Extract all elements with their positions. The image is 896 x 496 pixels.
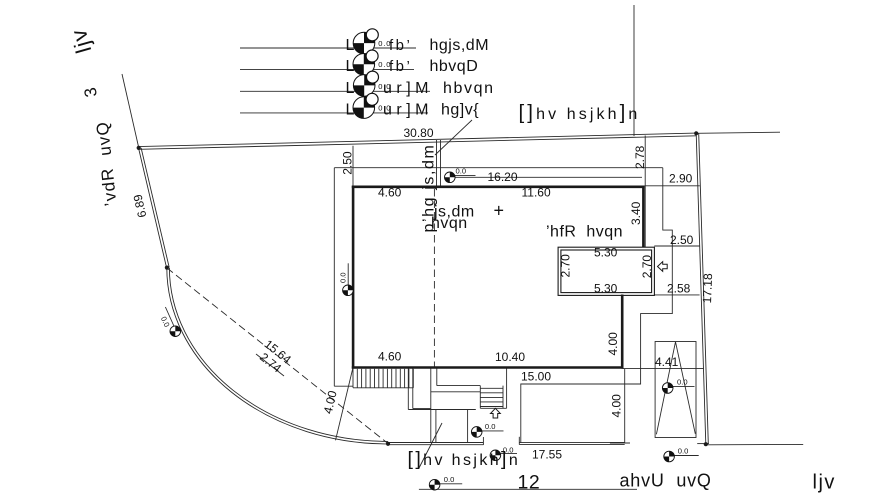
leader bm text row: [501, 453, 518, 455]
room 5.30 x 2.70 inner: [561, 250, 652, 293]
gate leaf triangle: [656, 342, 675, 435]
svg-text:L: L: [346, 58, 355, 75]
porch horizontal ledge: [431, 391, 481, 393]
wall extension above building left: [352, 146, 354, 186]
svg-text:11.60: 11.60: [522, 186, 551, 200]
svg-text:hbvqD: hbvqD: [430, 58, 479, 75]
plot right boundary (double line): [696, 133, 706, 444]
fraction bar 15.64/2.74: [256, 354, 284, 376]
svg-text:0.0: 0.0: [444, 475, 455, 484]
dim line under 12: [419, 488, 637, 490]
svg-text:0.0: 0.0: [485, 422, 496, 431]
svg-text:L: L: [346, 102, 355, 119]
survey line vertical top: [633, 5, 635, 136]
svg-text:2.70: 2.70: [640, 255, 654, 279]
level symbol row1: [353, 29, 378, 54]
svg-text:2.70: 2.70: [559, 254, 573, 278]
svg-text:12: 12: [518, 472, 541, 494]
dim line 2.90: [645, 185, 700, 187]
room door arrow: [658, 262, 668, 272]
boundary extension line top-left: [122, 74, 139, 148]
svg-text:17.18: 17.18: [700, 273, 715, 304]
svg-text:2.50: 2.50: [670, 233, 694, 247]
compound wall bottom-left (double): [388, 442, 483, 444]
bm text row: [490, 450, 501, 461]
leader line row 3: [240, 90, 430, 92]
svg-text:0.0: 0.0: [677, 378, 688, 387]
svg-text:L: L: [346, 80, 355, 97]
dim line 2.50 right: [654, 245, 699, 247]
stairs hatched strip: [353, 369, 413, 388]
plot curved boundary (double arc): [167, 268, 388, 444]
leader bm left wall: [347, 263, 349, 285]
leader line row 4: [240, 112, 428, 114]
svg-text:4.41: 4.41: [655, 355, 679, 369]
yard line to boundary: [623, 368, 704, 370]
porch bottom line: [408, 409, 476, 411]
svg-text:16.20: 16.20: [488, 170, 518, 184]
svg-text:4.60: 4.60: [378, 186, 402, 200]
porch top inner horizontal: [437, 385, 481, 387]
svg-text:+: +: [494, 201, 505, 221]
bm bottom right: [664, 451, 675, 462]
leader to top boundary: [435, 120, 472, 155]
main building walls (thick): [352, 186, 645, 369]
svg-text:15.00: 15.00: [521, 369, 551, 383]
porch vertical wall a: [430, 369, 432, 444]
porch top inner vertical: [436, 369, 438, 386]
fence cap: [610, 442, 630, 444]
level symbol row3: [353, 71, 378, 96]
leader to bottom label: [419, 423, 442, 468]
survey level symbols chain (4 big): [353, 29, 379, 119]
building right wall lower 4.00: [621, 295, 624, 369]
bm porch: [471, 427, 482, 438]
dim line 2.58 right: [654, 294, 699, 296]
room 5.30 x 2.70 outer: [558, 247, 654, 295]
entry steps bottom: [480, 407, 506, 409]
svg-text:3.40: 3.40: [629, 201, 643, 225]
entry steps arrow: [491, 408, 501, 418]
svg-text:30.80: 30.80: [404, 126, 434, 140]
wall extension above building right: [644, 136, 646, 248]
plot top boundary (double line): [139, 133, 697, 147]
leader bm porch: [482, 430, 504, 432]
svg-text:ur]M: ur]M: [383, 102, 433, 119]
gate opening tick left: [482, 437, 484, 445]
fence 4.00 vertical: [624, 369, 626, 443]
leader bm bottom right: [673, 455, 699, 457]
svg-text:ljv: ljv: [813, 472, 836, 494]
leader bm 16.20: [455, 174, 476, 176]
porch lower square right: [467, 410, 469, 444]
svg-text:0.0: 0.0: [456, 167, 467, 176]
svg-text:hbvqn: hbvqn: [443, 80, 495, 97]
setback line right path: [521, 168, 673, 443]
leader line row 2: [240, 68, 414, 70]
building top wall: [352, 186, 645, 189]
svg-text:[]hv hsjkh]n: []hv hsjkh]n: [408, 448, 521, 470]
svg-text:5.30: 5.30: [594, 245, 618, 259]
svg-text:4.00: 4.00: [609, 394, 623, 418]
svg-text:fb’: fb’: [389, 58, 412, 75]
leader line row 1: [240, 47, 416, 49]
svg-text:hgjs,dM: hgjs,dM: [430, 37, 490, 54]
dashed chord 15.64: [167, 268, 388, 444]
right boundary bottom tick: [697, 443, 709, 445]
building left wall: [352, 186, 355, 369]
svg-text:0.0: 0.0: [339, 272, 348, 283]
porch vertical wall b: [435, 410, 437, 444]
svg-text:p’hg js,dm: p’hg js,dm: [421, 144, 438, 233]
gate pillar rectangle: [655, 342, 696, 438]
leader bm gate: [672, 385, 695, 387]
dim 30.80 extension lines: [436, 140, 438, 186]
svg-text:2.78: 2.78: [633, 145, 647, 169]
svg-text:ahvU uvQ: ahvU uvQ: [620, 471, 712, 491]
porch left wall inner: [412, 369, 414, 409]
setback line left vertical: [333, 168, 335, 386]
node dots: [137, 131, 708, 446]
entry steps rails: [479, 386, 481, 409]
bm gate: [662, 383, 673, 394]
leader bm curve: [165, 307, 174, 328]
dim line 16.20: [445, 176, 642, 178]
bm curve: [170, 326, 181, 337]
road line top-right: [696, 132, 780, 133]
bm 12: [429, 479, 440, 490]
bm 16.20: [445, 172, 456, 183]
svg-text:10.40: 10.40: [495, 350, 525, 364]
dashed centre line of building: [433, 189, 435, 367]
svg-text:L: L: [346, 37, 355, 54]
bm left wall: [343, 285, 354, 296]
entry steps treads: [480, 387, 503, 389]
porch left wall outer: [407, 369, 409, 410]
svg-text:4.60: 4.60: [378, 350, 402, 364]
level symbol row4: [353, 93, 378, 118]
svg-text:5.30: 5.30: [594, 282, 618, 296]
svg-text:fb’: fb’: [389, 37, 412, 54]
svg-text:17.55: 17.55: [532, 448, 562, 462]
road line bottom-right: [708, 443, 804, 445]
svg-text:2.58: 2.58: [667, 282, 691, 296]
svg-text:4.00: 4.00: [606, 332, 620, 356]
building right wall upper 3.40: [642, 186, 645, 247]
benchmark symbols: [170, 172, 674, 490]
porch inner step line: [413, 408, 431, 410]
small 0.0 labels: [159, 39, 688, 484]
svg-text:0.0: 0.0: [678, 446, 689, 455]
svg-text:2.50: 2.50: [341, 151, 355, 175]
benchmark leaders: [165, 175, 698, 483]
gate opening tick right: [518, 437, 520, 445]
svg-text:ur]M: ur]M: [383, 80, 433, 97]
diagonal 4.00 line at stairs: [336, 368, 354, 441]
compound wall bottom-right (double): [519, 441, 624, 443]
plot left boundary (double line): [139, 148, 167, 268]
level symbol row2: [353, 50, 378, 75]
svg-text:hg]v{: hg]v{: [441, 102, 479, 119]
setback line top horizontal: [334, 167, 663, 169]
leader bm 12: [438, 483, 462, 485]
setback connector to stairs: [334, 385, 353, 387]
svg-text:’hfR hvqn: ’hfR hvqn: [546, 224, 623, 241]
svg-text:2.90: 2.90: [669, 172, 693, 186]
building bottom wall: [352, 366, 624, 369]
